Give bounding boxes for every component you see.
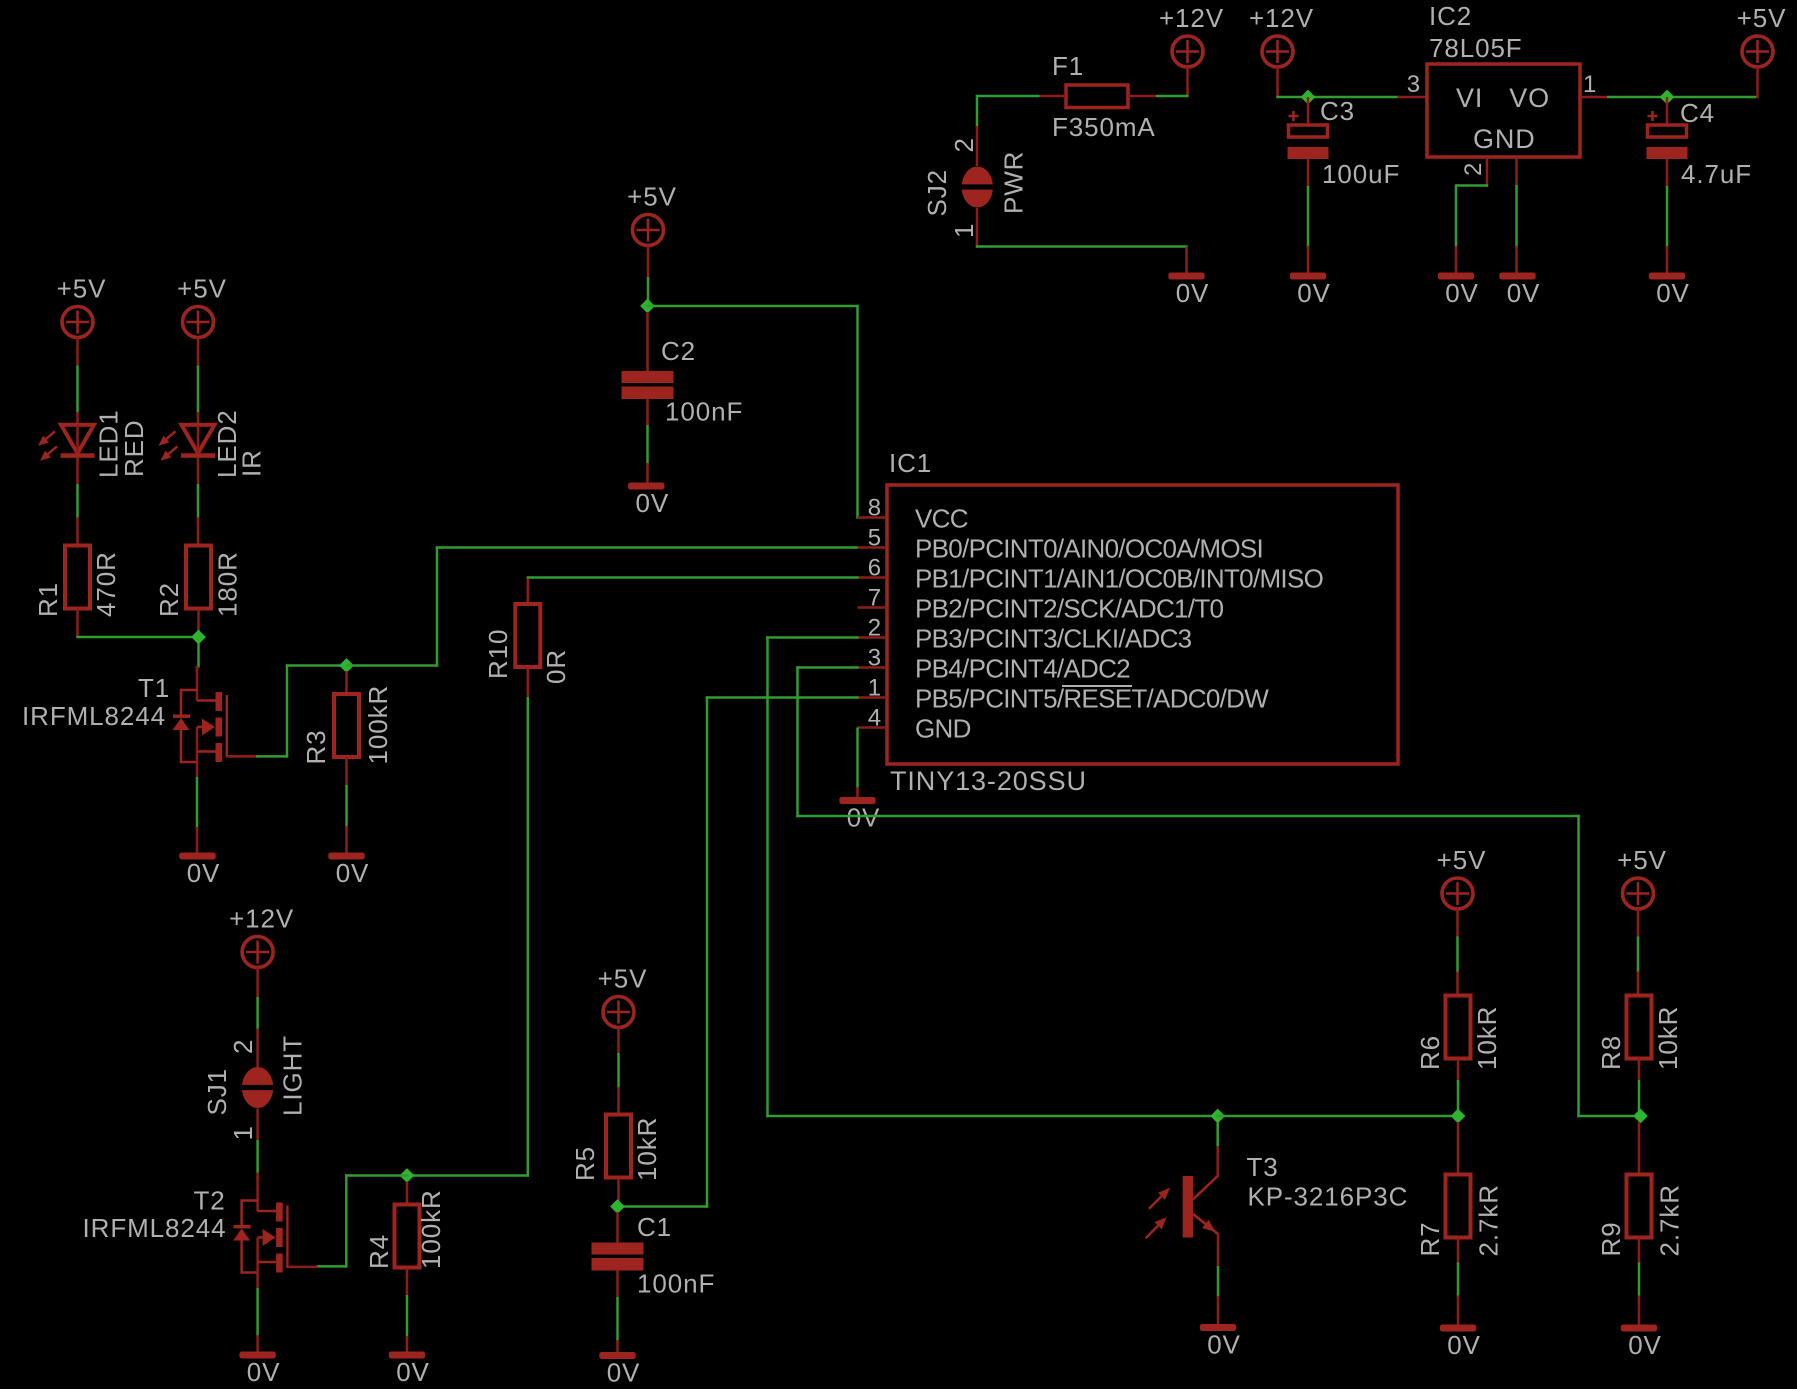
resistor R10 0R bbox=[483, 604, 571, 684]
svg-text:0R: 0R bbox=[541, 649, 571, 684]
wire R6 to junction bbox=[1457, 1059, 1460, 1117]
wire SJ1 to T2 drain bbox=[256, 1109, 259, 1180]
svg-text:PB2/PCINT2/SCK/ADC1/T0: PB2/PCINT2/SCK/ADC1/T0 bbox=[915, 594, 1223, 624]
capacitor C2 100nF bbox=[622, 312, 744, 427]
junction C4 node bbox=[1660, 90, 1675, 105]
capacitor C1 100nF bbox=[592, 1212, 716, 1299]
wire junction to R7 bbox=[1457, 1122, 1460, 1175]
svg-text:180R: 180R bbox=[213, 551, 243, 617]
wire PB4 net bbox=[796, 666, 1640, 1117]
svg-text:+5V: +5V bbox=[1617, 845, 1667, 875]
svg-text:0V: 0V bbox=[1628, 1330, 1662, 1360]
wire +5V to R5 bbox=[617, 1027, 620, 1115]
wire R3 to ground bbox=[345, 757, 348, 853]
svg-text:0V: 0V bbox=[847, 803, 881, 833]
svg-text:R2: R2 bbox=[154, 582, 184, 617]
jumper SJ1 bbox=[240, 1067, 275, 1108]
wire F1 pins bbox=[1039, 95, 1157, 98]
svg-text:C4: C4 bbox=[1680, 98, 1715, 128]
resistor R7 2.7kR bbox=[1415, 1175, 1504, 1257]
junction T3 collector node bbox=[1210, 1109, 1225, 1124]
supply +5V (R5) bbox=[598, 964, 648, 1028]
svg-text:3: 3 bbox=[1407, 71, 1421, 98]
label SJ1 pin 1 bbox=[228, 1125, 258, 1140]
wire IC2 GND pin left bbox=[1456, 157, 1488, 273]
wire PB0 net horizontal bbox=[436, 546, 859, 549]
label IC2 pin 2 bbox=[1460, 162, 1487, 176]
wire R9 to ground bbox=[1638, 1238, 1641, 1325]
junction C3 node bbox=[1301, 90, 1316, 105]
label IC2 pin 1 bbox=[1583, 71, 1597, 98]
resistor R8 10kR bbox=[1596, 996, 1683, 1071]
wire IC2 GND pin right bbox=[1515, 157, 1518, 273]
ground 0V (C2) bbox=[628, 483, 669, 519]
wire T3 collector bbox=[1193, 1122, 1218, 1199]
label SJ1 pin 2 bbox=[228, 1039, 258, 1054]
svg-text:0V: 0V bbox=[1297, 278, 1331, 308]
svg-text:VO: VO bbox=[1509, 83, 1550, 113]
svg-text:LIGHT: LIGHT bbox=[278, 1035, 308, 1116]
label PWR bbox=[999, 151, 1029, 214]
wire T2 source to ground bbox=[256, 1288, 259, 1352]
fuse F1 bbox=[1052, 51, 1128, 108]
wire SJ2 pin2 net bbox=[976, 95, 1040, 166]
svg-text:VI: VI bbox=[1456, 83, 1483, 113]
svg-text:+5V: +5V bbox=[598, 964, 648, 994]
svg-text:GND: GND bbox=[915, 714, 971, 744]
junction R4 node bbox=[400, 1168, 415, 1183]
label SJ2 bbox=[922, 169, 952, 217]
svg-text:F1: F1 bbox=[1052, 51, 1084, 81]
svg-text:2.7kR: 2.7kR bbox=[1474, 1184, 1504, 1256]
resistor R5 10kR bbox=[570, 1115, 662, 1182]
svg-text:PB3/PCINT3/CLKI/ADC3: PB3/PCINT3/CLKI/ADC3 bbox=[915, 624, 1192, 654]
wire +5V to C2 node bbox=[647, 245, 650, 307]
wire T3 node to R6 node bbox=[1217, 1115, 1460, 1118]
svg-text:PWR: PWR bbox=[999, 151, 1029, 214]
svg-text:T1: T1 bbox=[138, 673, 170, 703]
resistor R6 10kR bbox=[1415, 996, 1502, 1071]
supply +5V (R6) bbox=[1437, 845, 1487, 909]
wire IC1 GND to ground bbox=[856, 728, 859, 798]
svg-text:0V: 0V bbox=[1176, 278, 1210, 308]
svg-text:R4: R4 bbox=[364, 1234, 394, 1269]
svg-text:2: 2 bbox=[228, 1039, 258, 1054]
svg-text:2.7kR: 2.7kR bbox=[1655, 1184, 1685, 1256]
svg-text:100uF: 100uF bbox=[1322, 159, 1400, 189]
svg-text:VCC: VCC bbox=[915, 504, 968, 534]
transistor T2 IRFML8244 bbox=[83, 1177, 318, 1289]
svg-text:T3: T3 bbox=[1247, 1152, 1279, 1182]
svg-text:470R: 470R bbox=[91, 551, 121, 617]
svg-text:100nF: 100nF bbox=[637, 1269, 715, 1299]
svg-text:0V: 0V bbox=[1445, 278, 1479, 308]
resistor R9 2.7kR bbox=[1596, 1175, 1685, 1257]
ground 0V (IC1) bbox=[839, 797, 880, 833]
regulator IC2 78L05F bbox=[1427, 1, 1580, 157]
svg-text:+5V: +5V bbox=[57, 274, 107, 304]
wire IC2 VO to C4 node bbox=[1580, 96, 1758, 99]
svg-text:0V: 0V bbox=[635, 488, 669, 518]
svg-text:SJ2: SJ2 bbox=[922, 169, 952, 217]
junction R6/R7 node bbox=[1451, 1109, 1466, 1124]
svg-text:4.7uF: 4.7uF bbox=[1681, 159, 1752, 189]
ground 0V (R4) bbox=[389, 1352, 430, 1388]
svg-text:R6: R6 bbox=[1415, 1035, 1445, 1070]
resistor R4 100kR bbox=[364, 1189, 446, 1269]
ground 0V (SJ2 net) bbox=[1168, 273, 1209, 309]
svg-text:100kR: 100kR bbox=[416, 1189, 446, 1269]
label LIGHT bbox=[278, 1035, 308, 1116]
wire T3 emitter to ground bbox=[1217, 1233, 1220, 1324]
svg-text:0V: 0V bbox=[336, 858, 370, 888]
wire R8 to junction bbox=[1638, 1059, 1641, 1117]
ground 0V (T2) bbox=[239, 1352, 280, 1388]
svg-text:PB4/PCINT4/ADC2: PB4/PCINT4/ADC2 bbox=[915, 654, 1130, 684]
svg-text:+12V: +12V bbox=[1249, 3, 1314, 33]
transistor T1 IRFML8244 bbox=[22, 666, 257, 778]
junction LED drive node bbox=[191, 630, 206, 645]
wire +12V to SJ1 bbox=[256, 967, 259, 1067]
label IC2 pin 3 bbox=[1407, 71, 1421, 98]
wire junction to R9 bbox=[1638, 1122, 1641, 1175]
svg-text:0V: 0V bbox=[1447, 1330, 1481, 1360]
svg-text:10kR: 10kR bbox=[1472, 1006, 1502, 1070]
ground 0V (IC2 gnd b) bbox=[1499, 273, 1540, 309]
svg-text:TINY13-20SSU: TINY13-20SSU bbox=[890, 766, 1087, 796]
wire R4 to ground bbox=[406, 1268, 409, 1352]
svg-text:0V: 0V bbox=[396, 1357, 430, 1387]
svg-text:RED: RED bbox=[119, 419, 149, 477]
wire R2 to junction bbox=[197, 609, 200, 638]
svg-text:+5V: +5V bbox=[1737, 3, 1787, 33]
supply +5V (LED2) bbox=[177, 274, 227, 338]
wire R4 stub bbox=[406, 1182, 409, 1205]
svg-text:IR: IR bbox=[237, 449, 267, 477]
ground 0V (IC2 gnd a) bbox=[1438, 273, 1479, 309]
svg-text:0V: 0V bbox=[1656, 278, 1690, 308]
ground 0V (T3) bbox=[1200, 1324, 1241, 1360]
svg-text:+12V: +12V bbox=[229, 904, 294, 934]
svg-text:0V: 0V bbox=[1207, 1330, 1241, 1360]
svg-text:IRFML8244: IRFML8244 bbox=[83, 1213, 227, 1243]
wire junction to T1 drain bbox=[197, 643, 199, 670]
svg-text:2: 2 bbox=[949, 137, 979, 152]
svg-text:+5V: +5V bbox=[1437, 845, 1487, 875]
resistor R2 180R bbox=[154, 546, 243, 618]
svg-text:R1: R1 bbox=[33, 582, 63, 617]
label F350mA bbox=[1052, 112, 1156, 142]
diode LED2 bbox=[159, 409, 267, 478]
svg-text:IC2: IC2 bbox=[1429, 1, 1472, 31]
svg-text:R8: R8 bbox=[1596, 1035, 1626, 1070]
svg-text:C1: C1 bbox=[637, 1212, 672, 1242]
svg-text:PB1/PCINT1/AIN1/OC0B/INT0/MISO: PB1/PCINT1/AIN1/OC0B/INT0/MISO bbox=[915, 564, 1323, 594]
wire R5 to junction bbox=[617, 1178, 620, 1202]
IC IC1 TINY13-20SSU bbox=[858, 448, 1399, 796]
wire node to IC2 VI bbox=[1308, 96, 1427, 99]
ground 0V (R3) bbox=[328, 853, 369, 889]
ground 0V (T1) bbox=[179, 853, 220, 889]
wire C2 node to IC1 VCC bbox=[646, 305, 858, 519]
svg-text:100nF: 100nF bbox=[665, 397, 743, 427]
svg-text:+5V: +5V bbox=[177, 274, 227, 304]
svg-text:R9: R9 bbox=[1596, 1221, 1626, 1256]
ground 0V (R7) bbox=[1440, 1325, 1481, 1361]
svg-text:0V: 0V bbox=[607, 1358, 641, 1388]
transistor T3 KP-3216P3C bbox=[1146, 1152, 1409, 1238]
supply +12V (C3 node) bbox=[1249, 3, 1314, 67]
wire SJ2 pin1 down bbox=[976, 208, 979, 248]
wire +5V drop bbox=[1756, 67, 1759, 99]
svg-text:R10: R10 bbox=[483, 629, 513, 679]
svg-text:78L05F: 78L05F bbox=[1429, 33, 1523, 63]
supply +5V (LED1) bbox=[57, 274, 107, 338]
supply +12V (fuse output) bbox=[1159, 3, 1224, 67]
svg-text:C3: C3 bbox=[1320, 96, 1355, 126]
svg-text:R7: R7 bbox=[1415, 1221, 1445, 1256]
ground 0V (R9) bbox=[1621, 1325, 1662, 1361]
wire T1 gate net bbox=[228, 664, 348, 757]
junction R3 node bbox=[339, 658, 354, 673]
svg-text:GND: GND bbox=[1473, 124, 1536, 154]
wire junction to R3 bbox=[345, 671, 348, 694]
label SJ2 pin 2 bbox=[949, 137, 979, 152]
wire +5V to LED1 bbox=[76, 337, 79, 425]
label SJ2 pin 1 bbox=[949, 223, 979, 238]
svg-text:PB0/PCINT0/AIN0/OC0A/MOSI: PB0/PCINT0/AIN0/OC0A/MOSI bbox=[915, 534, 1263, 564]
svg-text:PB5/PCINT5/RESET/ADC0/DW: PB5/PCINT5/RESET/ADC0/DW bbox=[915, 684, 1269, 714]
svg-text:IRFML8244: IRFML8244 bbox=[22, 701, 166, 731]
wire +12V to fuse node bbox=[1186, 67, 1189, 97]
junction C2 node bbox=[640, 299, 655, 314]
svg-text:0V: 0V bbox=[1507, 278, 1541, 308]
svg-text:100kR: 100kR bbox=[363, 685, 393, 765]
wire +5V to R8 bbox=[1637, 909, 1640, 996]
ground 0V (C1) bbox=[599, 1352, 640, 1388]
wire R7 to ground bbox=[1457, 1238, 1460, 1325]
wire +5V to LED2 bbox=[197, 337, 200, 425]
svg-text:R5: R5 bbox=[570, 1146, 600, 1181]
svg-text:1: 1 bbox=[949, 223, 979, 238]
wire PB3 net bbox=[766, 636, 1219, 1117]
supply +5V (C2 node) bbox=[627, 182, 677, 246]
svg-text:F350mA: F350mA bbox=[1052, 112, 1156, 142]
svg-text:SJ1: SJ1 bbox=[202, 1068, 232, 1116]
jumper SJ2 bbox=[960, 167, 995, 208]
wire R3 node to PB0 riser bbox=[347, 546, 439, 666]
svg-text:0V: 0V bbox=[187, 858, 221, 888]
supply +5V (R8) bbox=[1617, 845, 1667, 909]
svg-text:R3: R3 bbox=[301, 729, 331, 764]
resistor R3 100kR bbox=[301, 685, 393, 765]
supply +5V (C4 node) bbox=[1737, 3, 1787, 67]
wire PB5 net bbox=[616, 696, 858, 1207]
junction R5/C1 node bbox=[610, 1199, 625, 1214]
wire T1 source to ground bbox=[196, 777, 199, 853]
wire C3 to ground bbox=[1307, 159, 1310, 273]
svg-text:+12V: +12V bbox=[1159, 3, 1224, 33]
supply +12V (SJ1) bbox=[229, 904, 294, 968]
wire LED2 to R2 bbox=[197, 458, 200, 546]
ground 0V (C4) bbox=[1649, 273, 1690, 309]
label SJ1 bbox=[202, 1068, 232, 1116]
wire R1 to junction bbox=[76, 609, 199, 639]
wire C4 to ground bbox=[1666, 159, 1669, 273]
diode LED1 bbox=[38, 409, 149, 478]
wire SJ2 pin1 to ground bbox=[976, 247, 1188, 273]
svg-text:10kR: 10kR bbox=[632, 1117, 662, 1181]
wire F1 to +12V corner bbox=[1156, 95, 1189, 98]
junction R8/R9 node bbox=[1633, 1109, 1648, 1124]
svg-text:2: 2 bbox=[1460, 162, 1487, 176]
svg-text:10kR: 10kR bbox=[1653, 1006, 1683, 1070]
wire R10 down net bbox=[406, 668, 529, 1177]
capacitor C4 bbox=[1647, 97, 1753, 189]
ground 0V (C3) bbox=[1290, 273, 1331, 309]
svg-text:0V: 0V bbox=[247, 1357, 281, 1387]
svg-text:KP-3216P3C: KP-3216P3C bbox=[1248, 1182, 1409, 1212]
wire node to T2 gate bbox=[316, 1174, 408, 1267]
svg-text:+5V: +5V bbox=[627, 182, 677, 212]
wire +12V drop to node bbox=[1276, 67, 1308, 98]
wire +5V to R6 bbox=[1456, 909, 1459, 996]
wire C1 to ground bbox=[616, 1270, 619, 1352]
capacitor C3 bbox=[1288, 96, 1401, 189]
wire C2 to ground bbox=[646, 399, 649, 483]
svg-text:1: 1 bbox=[228, 1125, 258, 1140]
wire LED1 to R1 bbox=[76, 458, 79, 546]
svg-text:1: 1 bbox=[1583, 71, 1597, 98]
svg-text:IC1: IC1 bbox=[889, 448, 932, 478]
svg-text:C2: C2 bbox=[661, 336, 696, 366]
resistor R1 470R bbox=[33, 546, 121, 618]
wire PB1 net bbox=[527, 578, 859, 605]
svg-text:T2: T2 bbox=[194, 1186, 226, 1216]
